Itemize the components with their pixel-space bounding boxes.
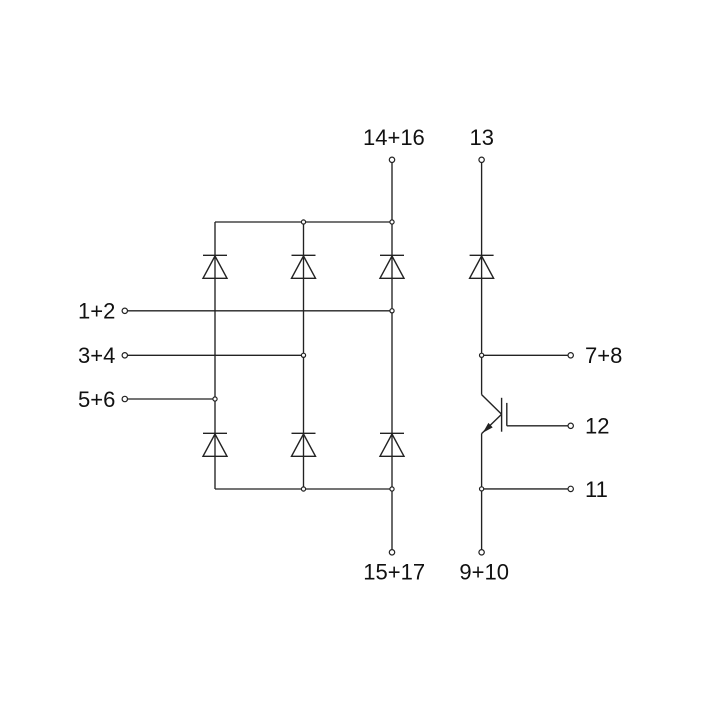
diode D6 (lower row, column 3): [380, 433, 404, 456]
node: top bus / column 2: [301, 220, 305, 224]
wire: column 1 vertical (phase 5+6 leg): [214, 222, 216, 489]
diode D5 (lower row, column 2): [292, 433, 316, 456]
svg-text:3+4: 3+4: [78, 343, 115, 368]
node: top bus / column 3: [390, 220, 394, 224]
wire: terminal 14+16 down to top bus: [391, 163, 393, 223]
terminal 14+16: [389, 157, 394, 162]
diode D1 (upper row, column 1): [203, 255, 227, 278]
node: 7+8 tap on chopper leg: [480, 353, 484, 357]
wire: terminal 13 down to chopper diode: [481, 163, 483, 395]
wire: IGBT gate to terminal 12: [507, 425, 568, 427]
diode D2 (upper row, column 2): [292, 255, 316, 278]
wire: column 2 vertical (phase 3+4 leg): [303, 222, 305, 489]
terminal 11: [568, 486, 573, 491]
svg-text:14+16: 14+16: [363, 125, 425, 150]
svg-text:7+8: 7+8: [585, 343, 622, 368]
diode D3 (upper row, column 3): [380, 255, 404, 278]
node: 3+4 line / column 2: [301, 353, 305, 357]
diode D4 (lower row, column 1): [203, 433, 227, 456]
terminal 12: [568, 423, 573, 428]
transistor Q1 (IGBT chopper switch): [482, 395, 507, 434]
wire: node 11 to right terminal: [482, 488, 568, 490]
svg-text:9+10: 9+10: [459, 559, 509, 584]
svg-text:1+2: 1+2: [78, 299, 115, 324]
wire: top bus (positive rail): [215, 221, 392, 223]
svg-text:15+17: 15+17: [363, 559, 425, 584]
terminal 3+4: [122, 353, 127, 358]
node: 1+2 line / column 3: [390, 309, 394, 313]
svg-text:5+6: 5+6: [78, 387, 115, 412]
terminal 13: [479, 157, 484, 162]
node: bottom bus / column 3: [390, 487, 394, 491]
node: bottom bus / column 2: [301, 487, 305, 491]
wire: terminal 3+4 to column 2: [128, 354, 304, 356]
wire: node 7+8 to right terminal: [482, 354, 568, 356]
terminal 9+10: [479, 550, 484, 555]
svg-text:11: 11: [585, 477, 608, 502]
terminal 15+17: [389, 550, 394, 555]
diode D7 (chopper freewheel diode, right column): [470, 255, 494, 278]
terminal 5+6: [122, 396, 127, 401]
node: 11 tap on chopper leg: [480, 487, 484, 491]
wire: terminal 5+6 to column 1: [128, 398, 216, 400]
wire: IGBT emitter down to terminal 9+10: [481, 434, 483, 550]
wire: terminal 1+2 to column 3: [128, 310, 393, 312]
svg-text:12: 12: [585, 414, 609, 439]
node: 5+6 line / column 1: [213, 397, 217, 401]
svg-text:13: 13: [469, 125, 493, 150]
terminal 7+8: [568, 353, 573, 358]
wire: column 3 vertical (phase 1+2 leg): [391, 222, 393, 550]
terminal 1+2: [122, 308, 127, 313]
wire: bottom bus (negative rail): [215, 488, 392, 490]
